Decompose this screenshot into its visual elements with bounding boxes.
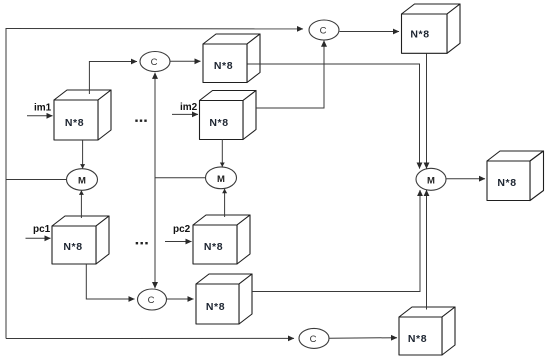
svg-text:N*8: N*8 xyxy=(63,241,82,253)
svg-text:N*8: N*8 xyxy=(410,29,429,41)
svg-text:N*8: N*8 xyxy=(497,177,516,189)
svg-text:M: M xyxy=(217,174,225,185)
svg-text:C: C xyxy=(148,295,155,306)
svg-text:N*8: N*8 xyxy=(65,117,84,129)
svg-text:C: C xyxy=(310,334,317,345)
svg-text:M: M xyxy=(78,176,86,187)
svg-text:C: C xyxy=(320,26,327,37)
svg-text:N*8: N*8 xyxy=(214,60,233,72)
svg-text:im1: im1 xyxy=(34,103,52,114)
svg-text:C: C xyxy=(151,57,158,68)
svg-text:N*8: N*8 xyxy=(209,117,228,129)
svg-text:pc2: pc2 xyxy=(173,224,191,235)
svg-text:N*8: N*8 xyxy=(206,301,225,313)
svg-text:N*8: N*8 xyxy=(408,333,427,345)
svg-text:pc1: pc1 xyxy=(33,224,51,235)
svg-text:M: M xyxy=(427,175,435,186)
svg-text:N*8: N*8 xyxy=(204,241,223,253)
svg-text:im2: im2 xyxy=(180,102,198,113)
